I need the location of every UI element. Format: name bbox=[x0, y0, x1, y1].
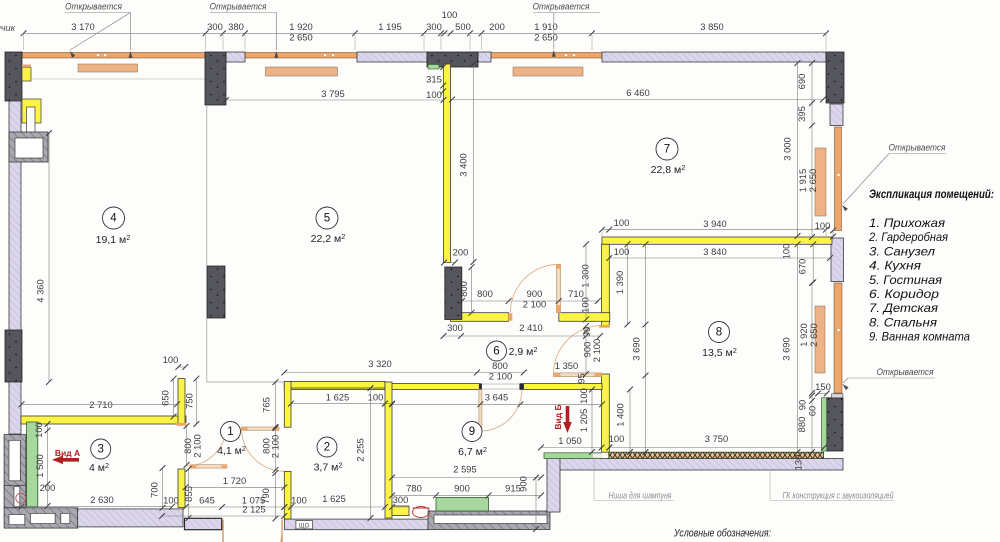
svg-text:3 840: 3 840 bbox=[703, 246, 726, 257]
svg-text:800: 800 bbox=[492, 360, 508, 371]
wall yellow corridor bottom-right bbox=[520, 384, 602, 390]
dim 200 room5 bbox=[444, 262, 455, 264]
svg-text:3 645: 3 645 bbox=[485, 392, 508, 403]
window florets bbox=[96, 54, 99, 57]
svg-text:Открывается: Открывается bbox=[65, 2, 122, 13]
wall lavender left bbox=[9, 101, 21, 434]
svg-text:1 500: 1 500 bbox=[34, 454, 45, 477]
room 4 label bbox=[103, 207, 125, 229]
svg-text:900: 900 bbox=[518, 476, 529, 492]
svg-text:800: 800 bbox=[477, 288, 493, 299]
svg-text:2. Гардеробная: 2. Гардеробная bbox=[868, 230, 948, 244]
svg-text:3 170: 3 170 bbox=[71, 21, 94, 32]
sink red outline bbox=[413, 507, 430, 518]
radiator room7 top bbox=[513, 67, 583, 76]
GK wall connector vertical bbox=[547, 459, 560, 513]
svg-text:395: 395 bbox=[796, 106, 807, 122]
svg-text:4 360: 4 360 bbox=[35, 279, 46, 302]
column top-mid-left bbox=[205, 52, 226, 105]
bottom balcony window 1 bbox=[9, 515, 25, 525]
svg-text:100: 100 bbox=[578, 388, 589, 404]
bottom wall block left of entry bbox=[185, 518, 222, 529]
column top-center bbox=[427, 52, 478, 67]
window W5 right (room 8) bbox=[834, 283, 842, 393]
room 3 label bbox=[91, 439, 111, 459]
svg-text:Условные обозначения:: Условные обозначения: bbox=[673, 528, 771, 540]
svg-text:2 100: 2 100 bbox=[270, 435, 281, 458]
svg-text:800: 800 bbox=[458, 281, 469, 297]
window W3 top sill bbox=[491, 53, 602, 59]
svg-text:7: 7 bbox=[664, 144, 670, 156]
shaft yellow small bbox=[22, 68, 31, 82]
dim ext room8 top bbox=[601, 230, 603, 237]
svg-text:200: 200 bbox=[453, 247, 469, 258]
svg-text:9: 9 bbox=[469, 426, 475, 438]
svg-text:2 650: 2 650 bbox=[534, 32, 557, 43]
svg-text:Открывается: Открывается bbox=[210, 2, 267, 13]
svg-text:650: 650 bbox=[160, 390, 171, 406]
kitchen green counter bbox=[27, 422, 38, 507]
svg-text:1: 1 bbox=[227, 426, 233, 438]
balcony slot white bbox=[14, 486, 20, 506]
wall yellow rooms1/2 vert lower bbox=[284, 471, 291, 519]
svg-text:1 205: 1 205 bbox=[578, 409, 589, 432]
door D3 leaf bbox=[557, 264, 561, 312]
dim extensions top bbox=[23, 33, 25, 50]
svg-text:100: 100 bbox=[781, 244, 792, 260]
wall yellow rooms2/9 bbox=[385, 382, 392, 518]
svg-text:Вид А: Вид А bbox=[55, 448, 80, 458]
window W2 top sill bbox=[245, 53, 357, 59]
room 1 label bbox=[221, 422, 241, 442]
svg-text:2 100: 2 100 bbox=[523, 299, 546, 310]
dim 3840 line bbox=[609, 257, 830, 259]
svg-text:3 000: 3 000 bbox=[782, 137, 793, 160]
niche white segment bbox=[593, 454, 603, 458]
svg-text:4: 4 bbox=[110, 213, 117, 225]
wall lavender right upper bbox=[830, 104, 843, 126]
room 9 label bbox=[462, 422, 482, 442]
svg-text:3,7 м2: 3,7 м2 bbox=[314, 461, 343, 474]
wall yellow rooms8/9 lower bbox=[602, 374, 610, 452]
svg-text:100: 100 bbox=[33, 422, 44, 438]
svg-text:3. Санузел: 3. Санузел bbox=[869, 244, 935, 258]
svg-text:2 100: 2 100 bbox=[489, 371, 512, 382]
boundary rooms4/5 lower bbox=[206, 318, 208, 382]
wall yellow rooms3/1 upper bbox=[178, 379, 185, 424]
svg-text:1 195: 1 195 bbox=[378, 21, 401, 32]
svg-text:100: 100 bbox=[368, 392, 384, 403]
svg-text:2,9 м2: 2,9 м2 bbox=[509, 345, 538, 358]
svg-text:Вид Б: Вид Б bbox=[553, 404, 563, 429]
svg-text:315: 315 bbox=[426, 74, 442, 85]
door D3 arc bbox=[510, 264, 558, 312]
dim door D3 line bbox=[462, 300, 598, 302]
room 2 label bbox=[317, 437, 337, 457]
svg-text:9. Ванная комната: 9. Ванная комната bbox=[869, 330, 970, 344]
wall lavender top-3 bbox=[478, 52, 491, 62]
shaft yellow big bbox=[22, 99, 41, 123]
room 6 label bbox=[487, 341, 507, 361]
svg-text:3 750: 3 750 bbox=[705, 433, 728, 444]
wall yellow room9 stub bbox=[392, 506, 409, 516]
door D4 leaf bbox=[479, 390, 482, 432]
svg-text:380: 380 bbox=[228, 21, 244, 32]
bottom wall lavender under kitchen bbox=[78, 509, 183, 527]
svg-text:19,1 м2: 19,1 м2 bbox=[96, 233, 131, 246]
door D4 arc bbox=[480, 390, 522, 432]
svg-text:3: 3 bbox=[97, 444, 103, 456]
wall lavender right mid bbox=[831, 238, 844, 282]
svg-text:690: 690 bbox=[796, 74, 807, 90]
svg-text:2 125: 2 125 bbox=[242, 504, 265, 515]
balcony window white bbox=[9, 440, 20, 481]
bottom balcony window 3 bbox=[61, 513, 70, 523]
svg-text:ЩО: ЩО bbox=[299, 522, 310, 529]
column bottom-right bbox=[827, 398, 843, 451]
door D1 leaf bbox=[190, 465, 227, 468]
bottom wall balcony gray bbox=[4, 508, 78, 528]
GK wall band horizontal bbox=[547, 459, 843, 471]
svg-text:500: 500 bbox=[455, 21, 471, 32]
svg-text:1 400: 1 400 bbox=[615, 403, 626, 426]
svg-text:3 795: 3 795 bbox=[321, 88, 344, 99]
svg-text:2: 2 bbox=[324, 442, 330, 454]
svg-text:5: 5 bbox=[324, 213, 330, 225]
door jamb orange cap D5 upper bbox=[599, 325, 610, 328]
wall yellow corridor top-left bbox=[451, 313, 509, 322]
radiator room4 bbox=[78, 64, 138, 72]
entrance door jamb left bbox=[222, 520, 224, 542]
radiator room8 right bbox=[815, 306, 825, 373]
wall yellow corridor top-right bbox=[559, 313, 610, 322]
svg-text:130: 130 bbox=[793, 455, 804, 471]
door D4 opening lines bbox=[480, 383, 520, 385]
svg-text:1. Прихожая: 1. Прихожая bbox=[869, 216, 946, 230]
svg-text:2 595: 2 595 bbox=[453, 464, 476, 475]
svg-text:7. Детская: 7. Детская bbox=[869, 301, 939, 315]
svg-text:2 255: 2 255 bbox=[355, 438, 366, 461]
svg-text:22,8 м2: 22,8 м2 bbox=[651, 163, 686, 176]
boundary room1 top bbox=[207, 381, 284, 383]
bottom wall lavender rooms1/2 bbox=[285, 519, 429, 530]
svg-text:700: 700 bbox=[149, 482, 160, 498]
bath block gray bbox=[428, 511, 550, 530]
wall lavender top-right long bbox=[602, 52, 826, 62]
svg-text:150: 150 bbox=[815, 381, 831, 392]
svg-text:300: 300 bbox=[447, 322, 463, 333]
wall yellow rooms1/2 top bbox=[284, 381, 385, 388]
svg-text:880: 880 bbox=[796, 417, 807, 433]
wall lavender top-2 bbox=[357, 52, 427, 62]
wall yellow rooms3/1 lower bbox=[178, 469, 185, 508]
red circle kitchen bbox=[16, 493, 26, 503]
svg-text:300: 300 bbox=[207, 21, 223, 32]
shaft white slot bbox=[27, 107, 36, 135]
svg-text:200: 200 bbox=[489, 21, 505, 32]
radiator room7 right bbox=[815, 148, 826, 216]
svg-text:100: 100 bbox=[163, 354, 179, 365]
shampoo niche green strip bbox=[544, 453, 601, 459]
svg-text:4. Кухня: 4. Кухня bbox=[869, 259, 922, 273]
column mid-left wall bbox=[5, 330, 22, 382]
svg-text:780: 780 bbox=[406, 483, 422, 494]
svg-text:900: 900 bbox=[527, 288, 543, 299]
svg-text:6. Коридор: 6. Коридор bbox=[869, 287, 939, 301]
svg-text:8. Спальня: 8. Спальня bbox=[869, 315, 938, 329]
door D2 arc bbox=[242, 429, 284, 472]
bathtub green bbox=[436, 498, 489, 512]
green cap below top-center column bbox=[428, 65, 439, 70]
room 8 label bbox=[709, 322, 730, 343]
door D5 leaf bbox=[554, 373, 602, 377]
svg-text:2 100: 2 100 bbox=[591, 339, 602, 362]
svg-text:645: 645 bbox=[199, 495, 215, 506]
svg-text:100: 100 bbox=[442, 9, 458, 20]
door D5 arc bbox=[554, 326, 603, 375]
dim chain right mid bbox=[811, 63, 813, 237]
wall yellow room7 bottom bbox=[602, 237, 832, 244]
svg-text:2 410: 2 410 bbox=[519, 322, 542, 333]
svg-text:1 720: 1 720 bbox=[223, 475, 246, 486]
entrance door jamb right bbox=[281, 520, 283, 542]
svg-text:2 100: 2 100 bbox=[192, 434, 203, 457]
balcony frame left bbox=[4, 435, 26, 488]
vent shaft white inner bbox=[15, 138, 43, 158]
svg-text:3 400: 3 400 bbox=[458, 153, 469, 176]
radiator room5 bbox=[266, 67, 338, 76]
svg-text:100: 100 bbox=[426, 89, 442, 100]
wall yellow room3 top bbox=[21, 416, 186, 424]
svg-text:750: 750 bbox=[184, 393, 195, 409]
door D2 leaf bbox=[242, 427, 280, 430]
soundproof strip crosshatch bbox=[609, 452, 824, 458]
svg-text:2 650: 2 650 bbox=[289, 32, 312, 43]
bottom balcony window 2 bbox=[30, 513, 55, 523]
vent shaft gray box bbox=[9, 132, 48, 162]
dim chain top bbox=[24, 32, 827, 34]
wall yellow rooms1/2 vert upper bbox=[284, 381, 291, 427]
svg-text:670: 670 bbox=[797, 259, 808, 275]
svg-text:710: 710 bbox=[568, 288, 584, 299]
svg-text:1 625: 1 625 bbox=[326, 392, 349, 403]
window W4 right (room 7) bbox=[835, 127, 842, 231]
svg-text:Открывается: Открывается bbox=[889, 143, 946, 154]
svg-text:2 650: 2 650 bbox=[807, 169, 818, 192]
svg-text:Открывается: Открывается bbox=[533, 2, 590, 13]
svg-text:Экспликация помещений:: Экспликация помещений: bbox=[869, 187, 994, 201]
door D1 arc bbox=[186, 426, 227, 466]
svg-text:22,2 м2: 22,2 м2 bbox=[311, 232, 346, 245]
svg-text:5. Гостиная: 5. Гостиная bbox=[869, 273, 943, 287]
svg-text:1 625: 1 625 bbox=[322, 493, 345, 504]
svg-text:2 650: 2 650 bbox=[808, 323, 819, 346]
svg-text:6,7 м2: 6,7 м2 bbox=[458, 445, 487, 458]
shaft orange cap bbox=[22, 65, 31, 68]
svg-text:100: 100 bbox=[580, 297, 591, 313]
entrance door arc bbox=[281, 529, 283, 542]
svg-text:100: 100 bbox=[609, 433, 625, 444]
svg-text:3 320: 3 320 bbox=[368, 358, 391, 369]
svg-text:3 690: 3 690 bbox=[631, 337, 642, 360]
svg-text:3 940: 3 940 bbox=[703, 218, 726, 229]
door jamb orange cap D1 top bbox=[177, 423, 187, 426]
boundary rooms4/5 upper bbox=[206, 105, 208, 266]
column top-left bbox=[5, 52, 22, 101]
svg-text:100: 100 bbox=[614, 246, 630, 257]
svg-text:3 690: 3 690 bbox=[781, 337, 792, 360]
svg-text:пчик: пчик bbox=[0, 23, 16, 33]
svg-text:13,5 м2: 13,5 м2 bbox=[702, 346, 737, 359]
wall yellow rooms5/7 bbox=[444, 64, 451, 263]
svg-text:1 350: 1 350 bbox=[555, 360, 578, 371]
svg-text:1 050: 1 050 bbox=[558, 435, 581, 446]
svg-text:8: 8 bbox=[716, 327, 722, 339]
door D3 wall jamb cap bbox=[508, 313, 512, 321]
svg-text:4,1 м2: 4,1 м2 bbox=[217, 444, 246, 457]
svg-text:765: 765 bbox=[261, 397, 272, 413]
green strip beside column BR bbox=[822, 398, 827, 451]
room 7 label bbox=[656, 138, 678, 160]
dim chain right inner bbox=[797, 63, 799, 236]
svg-text:100: 100 bbox=[163, 495, 179, 506]
svg-text:95: 95 bbox=[576, 373, 587, 383]
svg-text:6 460: 6 460 bbox=[626, 87, 649, 98]
wire bbox=[22, 78, 205, 80]
column top-right bbox=[826, 52, 844, 103]
svg-text:ГК конструкция с звукоизоляци: ГК конструкция с звукоизоляцией bbox=[783, 491, 894, 501]
ЩО box bbox=[296, 521, 313, 529]
wall lavender top-1 bbox=[226, 52, 245, 62]
column corridor E bbox=[445, 267, 462, 320]
window W1 top-left sill bbox=[22, 53, 205, 59]
svg-text:3 850: 3 850 bbox=[700, 21, 723, 32]
svg-text:900: 900 bbox=[454, 483, 470, 494]
column center (rooms 4/5) bbox=[207, 266, 225, 318]
room 5 label bbox=[316, 207, 338, 229]
svg-text:Открывается: Открывается bbox=[877, 367, 934, 378]
svg-text:1 390: 1 390 bbox=[614, 271, 625, 294]
balcony frame left lower bbox=[4, 485, 26, 508]
wall light cap above column bbox=[832, 394, 843, 398]
svg-text:6: 6 bbox=[493, 346, 499, 358]
svg-text:1 300: 1 300 bbox=[580, 264, 591, 287]
svg-text:2 630: 2 630 bbox=[90, 494, 113, 505]
bath white inner bbox=[434, 515, 547, 524]
wall yellow rooms7/8 upper bbox=[602, 244, 610, 325]
dim 3940 line bbox=[602, 229, 826, 231]
svg-text:Ниша для шампуня: Ниша для шампуня bbox=[609, 491, 672, 501]
svg-text:1 910: 1 910 bbox=[534, 21, 557, 32]
svg-text:1 920: 1 920 bbox=[289, 21, 312, 32]
svg-text:300: 300 bbox=[426, 21, 442, 32]
door D4 jamb caps bbox=[479, 384, 482, 390]
wall yellow corridor bottom-left bbox=[284, 384, 480, 390]
svg-text:100: 100 bbox=[614, 217, 630, 228]
